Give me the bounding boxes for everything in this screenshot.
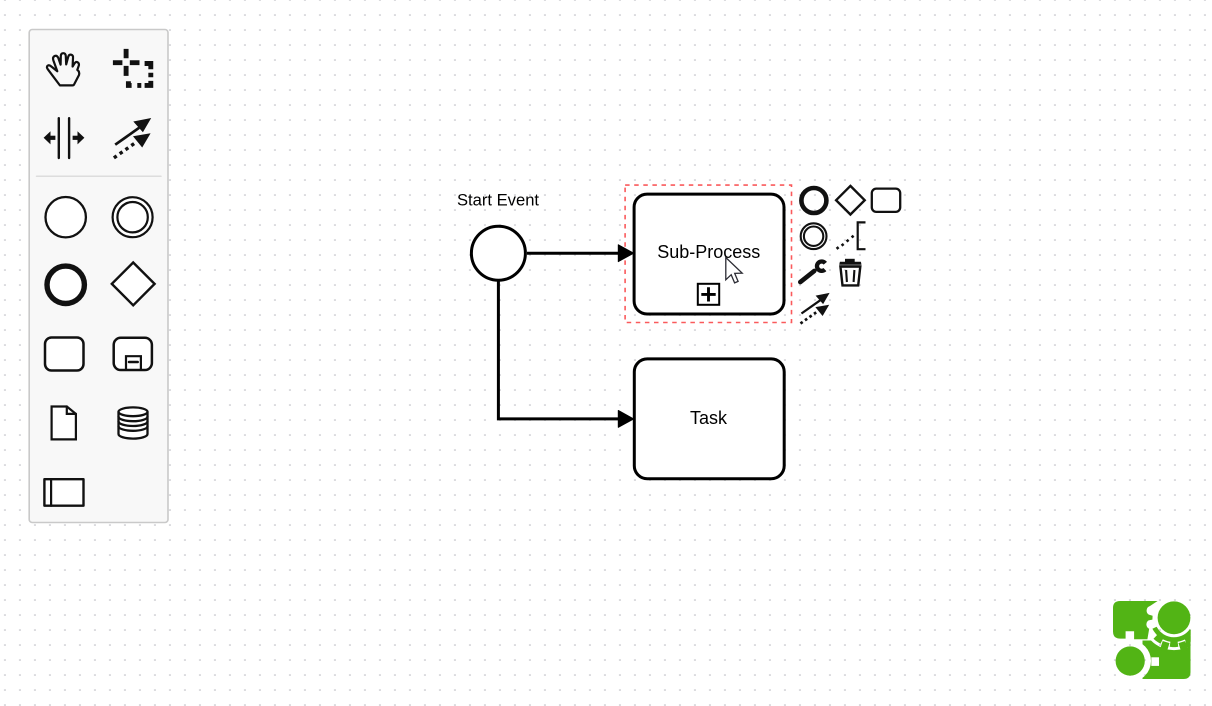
sequence flow 2: start -> task	[498, 282, 619, 419]
CURSOR	[726, 258, 742, 283]
task shape	[634, 359, 784, 479]
start event circle	[471, 226, 525, 280]
sub-process expand marker	[698, 284, 719, 305]
lasso tool icon	[113, 49, 151, 86]
bpmn.io logo: top-right gear circle	[1158, 601, 1191, 634]
bpmn.io logo: bottom-left circle	[1116, 646, 1145, 675]
pad: trash (delete)	[839, 259, 861, 265]
svg-text:Task: Task	[690, 408, 728, 428]
global connect tool icon	[113, 118, 151, 159]
palette separator	[37, 175, 162, 177]
pad: append end event	[801, 188, 826, 213]
pad: append intermediate event	[801, 223, 827, 249]
create data store icon	[119, 407, 148, 438]
bpmn.io logo: top-left puzzle piece	[1113, 601, 1158, 639]
LOGO	[1113, 601, 1194, 679]
create start event icon	[45, 197, 85, 237]
create data object icon	[52, 407, 76, 440]
sequence flow 1: start -> sub-process	[527, 252, 620, 255]
create end event icon	[47, 266, 84, 303]
space tool icon	[44, 118, 85, 158]
sub-process shape	[634, 194, 784, 314]
CONTEXTPAD	[800, 186, 901, 325]
create gateway icon	[112, 263, 155, 306]
PALETTE-CONTAINER	[29, 30, 168, 523]
pad: append task	[872, 189, 900, 212]
create subprocess icon	[114, 338, 152, 370]
selection outline (dashed)	[625, 185, 791, 322]
pad: append gateway	[836, 186, 865, 215]
bpmn.io logo: bottom-right puzzle piece	[1143, 641, 1191, 680]
create task icon	[45, 338, 84, 371]
pad: text annotation	[836, 235, 855, 250]
pad: wrench (change type)	[800, 261, 825, 282]
svg-text:Sub-Process: Sub-Process	[657, 242, 760, 262]
hand tool icon	[47, 53, 79, 85]
create participant icon	[44, 479, 83, 506]
bpmn.io logo: gear ring segment	[1152, 627, 1194, 647]
mouse pointer	[726, 258, 742, 283]
svg-text:Start Event: Start Event	[457, 191, 539, 210]
pad: connect icon	[800, 293, 830, 325]
DIAGRAM	[457, 185, 792, 479]
palette box	[29, 30, 168, 523]
create intermediate event icon	[113, 197, 153, 237]
